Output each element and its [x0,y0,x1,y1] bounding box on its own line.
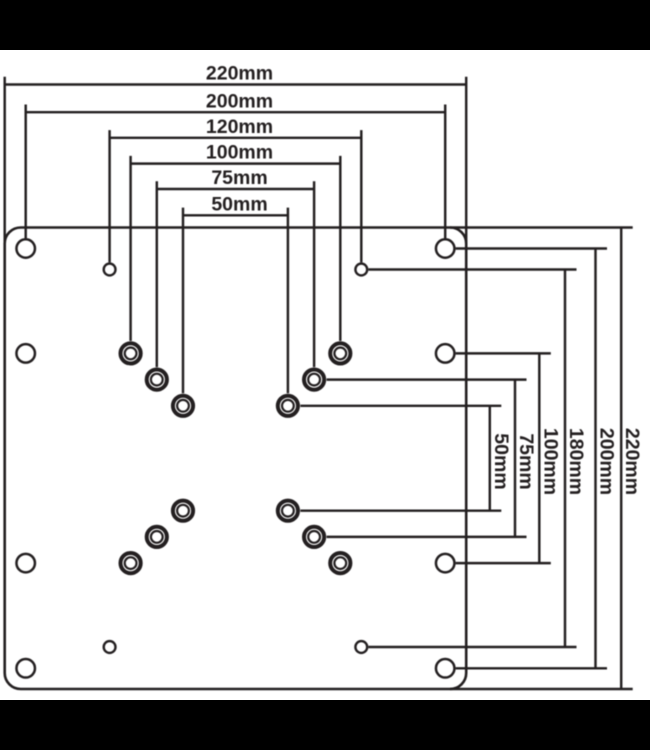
mounting hole left lower edge (200mm pattern) [16,554,35,573]
dimension 180mm vertical: bottom connector extension [368,646,576,648]
dimension 220mm horizontal: right extension line [465,77,467,244]
threaded hole VESA75 left bottom [147,527,167,547]
svg-text:200mm: 200mm [596,428,618,495]
dimension 100mm vertical: line [538,353,540,563]
small hole upper-right (120x180 pattern) [355,264,367,276]
dimension 120mm horizontal: line [110,137,362,139]
dimension 200mm vertical: bottom connector extension [456,667,607,669]
dimension 120mm horizontal: left extension line [108,130,110,262]
svg-text:75mm: 75mm [211,167,267,189]
dimension 100mm horizontal: right extension line [339,156,341,341]
mounting hole top-right corner (200mm pattern) [436,239,455,258]
threaded hole VESA75 right bottom [304,527,324,547]
dimension 75mm horizontal: right extension line [313,181,315,367]
dimension 75mm vertical: top connector extension [327,378,527,380]
dimension 75mm vertical: line [514,380,516,537]
threaded hole VESA100 left top [121,343,141,363]
dimension 180mm vertical: top connector extension [368,268,576,270]
dimension 75mm vertical: bottom connector extension [327,536,527,538]
small hole lower-left (120x180 pattern) [104,641,116,653]
dimension 200mm vertical: line [594,249,596,669]
dimension 50mm horizontal: line [183,214,288,216]
dimension 220mm vertical: line [620,228,622,690]
mounting hole right lower edge (200mm pattern) [436,554,455,573]
dimension 220mm horizontal: line [5,83,467,85]
dimension 200mm horizontal: line [26,111,446,113]
threaded hole VESA50 left top [173,396,193,416]
mounting hole left upper edge (200mm pattern) [16,344,35,363]
dimension 200mm horizontal: left extension line [24,105,26,239]
svg-text:180mm: 180mm [565,428,587,495]
dimension 50mm horizontal: left extension line [182,208,184,394]
threaded hole VESA100 right bottom [330,553,350,573]
dimension 220mm vertical: bottom connector extension [450,688,633,690]
svg-text:50mm: 50mm [211,193,267,215]
svg-text:200mm: 200mm [206,90,273,112]
dimension 200mm horizontal: right extension line [444,105,446,239]
dimension 100mm horizontal: line [131,162,341,164]
mounting hole right upper edge (200mm pattern) [436,344,455,363]
dimension 100mm vertical: bottom connector extension [456,562,551,564]
svg-text:75mm: 75mm [515,433,537,489]
mounting hole top-left corner (200mm pattern) [16,239,35,258]
dimension 50mm vertical: line [489,406,491,511]
dimension 220mm horizontal: left extension line [3,77,5,244]
dimension 50mm vertical: top connector extension [300,405,501,407]
threaded hole VESA50 left bottom [173,501,193,521]
threaded hole VESA100 right top [330,343,350,363]
dimension 50mm horizontal: right extension line [287,208,289,394]
svg-text:220mm: 220mm [621,428,643,495]
svg-text:50mm: 50mm [490,433,512,489]
threaded hole VESA50 right top [278,396,298,416]
dimension 100mm horizontal: left extension line [129,156,131,341]
dimension 75mm horizontal: left extension line [156,181,158,367]
dimension 75mm horizontal: line [157,188,314,190]
svg-text:120mm: 120mm [206,116,273,138]
dimension 120mm horizontal: right extension line [360,130,362,262]
letterbox bar top [0,0,650,50]
dimension 200mm vertical: top connector extension [456,247,607,249]
threaded hole VESA75 left top [147,370,167,390]
letterbox bar bottom [0,700,650,750]
svg-text:100mm: 100mm [206,142,273,164]
svg-text:100mm: 100mm [539,428,561,495]
mounting hole bottom-right corner (200mm pattern) [436,659,455,678]
plate outline [5,228,467,690]
threaded hole VESA100 left bottom [121,553,141,573]
dimension 50mm vertical: bottom connector extension [300,509,501,511]
mounting hole bottom-left corner (200mm pattern) [16,659,35,678]
dimension 220mm vertical: top connector extension [450,226,633,228]
small hole lower-right (120x180 pattern) [355,641,367,653]
small hole upper-left (120x180 pattern) [104,264,116,276]
threaded hole VESA50 right bottom [278,501,298,521]
dimension 100mm vertical: top connector extension [456,352,551,354]
dimension 180mm vertical: line [564,270,566,648]
threaded hole VESA75 right top [304,370,324,390]
svg-text:220mm: 220mm [206,63,273,85]
